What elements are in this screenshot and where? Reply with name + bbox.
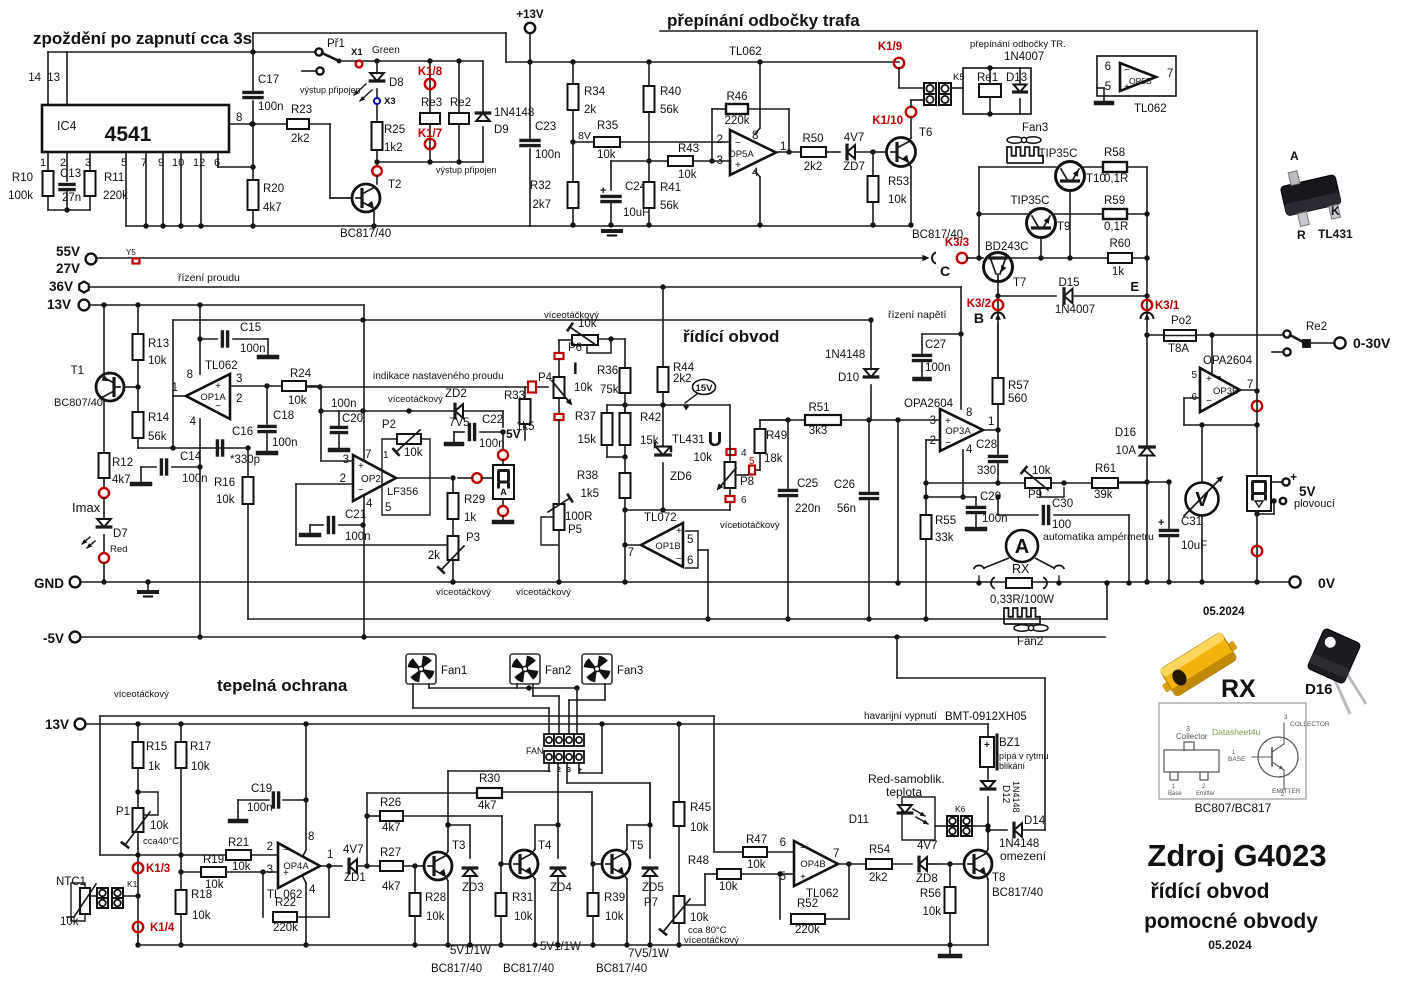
svg-text:BASE: BASE xyxy=(1228,756,1246,763)
resistor R35 xyxy=(573,141,594,143)
svg-text:4: 4 xyxy=(190,416,197,428)
svg-text:6: 6 xyxy=(780,837,786,849)
resistor R34 xyxy=(572,62,574,84)
svg-text:2: 2 xyxy=(717,134,723,146)
heatsink Fan3 xyxy=(1007,147,1043,163)
svg-text:X3: X3 xyxy=(384,96,396,107)
fan Fan3 xyxy=(582,654,612,684)
svg-text:R51: R51 xyxy=(808,402,829,414)
svg-text:10k: 10k xyxy=(1032,465,1051,477)
pin6 stub xyxy=(217,152,219,167)
svg-text:R23: R23 xyxy=(291,104,312,116)
OP2 pin3 wire xyxy=(321,460,353,462)
wire to R21 xyxy=(100,854,226,856)
diode D14 1N4148 xyxy=(988,829,1007,831)
svg-text:5V1/1W: 5V1/1W xyxy=(450,945,491,957)
svg-text:D11: D11 xyxy=(849,814,869,826)
wire y405 xyxy=(607,404,730,406)
svg-text:OP1B: OP1B xyxy=(655,541,680,552)
wire pin3 xyxy=(263,871,278,873)
svg-text:indikace nastaveného proudu: indikace nastaveného proudu xyxy=(373,371,504,382)
wire 13V rail xyxy=(89,304,364,306)
svg-text:7: 7 xyxy=(628,547,634,559)
svg-text:Zdroj G4023: Zdroj G4023 xyxy=(1147,838,1326,873)
svg-text:C22: C22 xyxy=(482,414,503,426)
terminal 0V xyxy=(75,581,1290,583)
svg-text:10A: 10A xyxy=(1116,445,1137,457)
OP4A output xyxy=(320,865,342,867)
svg-text:T8A: T8A xyxy=(1168,343,1189,355)
svg-text:řídící obvod: řídící obvod xyxy=(1150,880,1269,903)
svg-text:4k7: 4k7 xyxy=(263,202,282,214)
svg-text:výstup připojen: výstup připojen xyxy=(300,85,361,95)
svg-text:blikání: blikání xyxy=(999,761,1026,771)
OP1B loop box xyxy=(685,531,698,568)
svg-text:K6: K6 xyxy=(955,804,966,814)
zener ZD3 xyxy=(463,868,477,876)
svg-text:C19: C19 xyxy=(251,783,272,795)
T6 collector to K1/10 xyxy=(909,138,911,141)
resistor R18 10k xyxy=(176,890,187,914)
svg-text:P1: P1 xyxy=(116,806,130,818)
svg-text:teplota: teplota xyxy=(886,785,922,799)
svg-text:ZD1: ZD1 xyxy=(344,872,366,884)
svg-text:4k7: 4k7 xyxy=(478,800,497,812)
wire x367 up xyxy=(366,793,368,866)
svg-text:R37: R37 xyxy=(575,411,596,423)
svg-text:OP1A: OP1A xyxy=(200,392,226,403)
svg-text:T3: T3 xyxy=(452,840,465,852)
svg-text:6: 6 xyxy=(687,555,693,567)
pin7 stub xyxy=(145,152,147,226)
svg-text:RX: RX xyxy=(1012,562,1030,576)
svg-text:1N4007: 1N4007 xyxy=(1055,304,1095,316)
OP4A power stubs xyxy=(303,850,306,856)
switch Pr1 xyxy=(315,48,322,55)
svg-text:OPA2604: OPA2604 xyxy=(904,398,954,410)
svg-text:ZD4: ZD4 xyxy=(550,882,572,894)
R37 chain xyxy=(606,405,608,413)
svg-text:3: 3 xyxy=(236,373,242,385)
svg-text:ZD6: ZD6 xyxy=(670,471,692,483)
svg-text:4V7: 4V7 xyxy=(343,844,363,856)
svg-text:100n: 100n xyxy=(258,101,284,113)
P9 wiper loop xyxy=(1040,487,1064,497)
svg-text:220n: 220n xyxy=(795,503,821,515)
svg-text:D15: D15 xyxy=(1058,277,1079,289)
svg-text:8: 8 xyxy=(308,831,314,843)
wire feedback y448 xyxy=(138,447,248,449)
svg-text:+: + xyxy=(1206,374,1212,385)
R52 feedback xyxy=(779,874,781,919)
OP2 output xyxy=(396,477,449,479)
svg-text:RX: RX xyxy=(1221,675,1256,703)
fan wires xyxy=(412,684,414,708)
pin1 stub xyxy=(47,152,49,171)
diode D10 1N4148 xyxy=(870,320,872,369)
relay Re2 xyxy=(456,58,461,63)
svg-text:4: 4 xyxy=(741,448,747,459)
svg-text:8: 8 xyxy=(966,407,972,419)
svg-text:R43: R43 xyxy=(678,143,699,155)
wire y713 to R47 xyxy=(713,716,715,852)
svg-text:100n: 100n xyxy=(345,531,371,543)
svg-text:R49: R49 xyxy=(766,430,787,442)
svg-text:P4: P4 xyxy=(538,372,553,384)
svg-text:Collector: Collector xyxy=(1176,732,1208,741)
resistor R16 xyxy=(247,448,249,477)
svg-text:TL062: TL062 xyxy=(729,46,762,58)
R22 feedback xyxy=(262,872,264,917)
zener ZD1 4V7 xyxy=(349,859,357,873)
svg-text:OP4A: OP4A xyxy=(283,861,309,872)
svg-text:−: − xyxy=(358,485,364,496)
svg-text:R22: R22 xyxy=(275,897,296,909)
svg-text:ZD3: ZD3 xyxy=(462,882,484,894)
svg-text:vícetiotáčkový: vícetiotáčkový xyxy=(720,520,780,531)
resistor R43 xyxy=(668,156,693,166)
svg-text:K1/7: K1/7 xyxy=(418,128,442,140)
svg-text:5: 5 xyxy=(121,157,127,169)
svg-text:R25: R25 xyxy=(384,124,405,136)
T8 emitter xyxy=(986,875,988,879)
svg-text:R16: R16 xyxy=(214,477,235,489)
svg-text:Green: Green xyxy=(372,45,400,56)
transistor T5 xyxy=(593,863,602,865)
fan Fan1 xyxy=(406,654,436,684)
svg-text:X1: X1 xyxy=(351,47,363,58)
display 5V plovouci xyxy=(1247,476,1271,511)
T3 zener link xyxy=(448,824,470,826)
svg-text:5: 5 xyxy=(385,502,391,514)
K1/3 marker xyxy=(137,855,139,945)
svg-text:cca40°C: cca40°C xyxy=(143,836,179,847)
svg-text:řídící obvod: řídící obvod xyxy=(683,327,779,346)
svg-text:1k: 1k xyxy=(464,512,476,524)
K3/3 marker xyxy=(957,253,967,263)
svg-text:1k5: 1k5 xyxy=(580,488,599,500)
svg-text:R47: R47 xyxy=(746,834,767,846)
svg-text:K1/9: K1/9 xyxy=(878,41,902,53)
title underline wire xyxy=(660,30,1257,32)
svg-text:05.2024: 05.2024 xyxy=(1208,938,1252,952)
transistor T7 BD243C xyxy=(984,253,1013,282)
red sq 4 xyxy=(727,449,736,455)
svg-text:TL431: TL431 xyxy=(672,434,705,446)
svg-text:víceotáčkový: víceotáčkový xyxy=(516,587,571,598)
pin+ wire xyxy=(578,763,580,773)
wire T10 row xyxy=(979,166,1056,168)
svg-text:3: 3 xyxy=(267,864,273,876)
svg-text:K3/2: K3/2 xyxy=(967,298,991,310)
svg-text:10k: 10k xyxy=(150,820,169,832)
svg-text:Re2: Re2 xyxy=(1306,321,1327,333)
node 8V xyxy=(572,110,574,182)
wire pin14 drop xyxy=(47,52,49,105)
pot P9 10k xyxy=(1025,478,1051,488)
pin3 stub xyxy=(89,152,91,171)
svg-text:+: + xyxy=(735,160,741,171)
capacitor C30 xyxy=(997,497,999,515)
resistor R30 4k7 xyxy=(477,788,502,798)
vertical right bus x1257 xyxy=(1256,31,1258,391)
fan blades Fan2 xyxy=(1014,625,1030,631)
resistor R47 10k xyxy=(743,847,767,857)
svg-text:D10: D10 xyxy=(838,372,859,384)
svg-text:K1: K1 xyxy=(127,879,138,889)
svg-text:R10: R10 xyxy=(12,172,33,184)
svg-text:TL072: TL072 xyxy=(644,512,677,524)
svg-text:pomocné obvody: pomocné obvody xyxy=(1144,910,1318,933)
T3 cluster xyxy=(412,863,417,868)
svg-text:P3: P3 xyxy=(466,532,480,544)
Imax LED D7 xyxy=(103,478,105,488)
svg-text:P5: P5 xyxy=(568,524,582,536)
svg-text:TL431: TL431 xyxy=(1318,227,1353,241)
fuse Po2 T8A xyxy=(1144,332,1149,337)
wire pin13 drop xyxy=(66,52,68,105)
svg-text:7: 7 xyxy=(141,157,147,169)
transistor T10 TIP35C xyxy=(1056,162,1085,191)
svg-text:R59: R59 xyxy=(1104,195,1125,207)
capacitor C16 330p xyxy=(216,441,219,455)
svg-text:Fan1: Fan1 xyxy=(441,665,467,677)
resistor R31 10k xyxy=(500,864,502,893)
svg-text:T7: T7 xyxy=(1013,277,1026,289)
svg-text:10k: 10k xyxy=(888,194,907,206)
terminal 0-30V xyxy=(1334,337,1345,348)
svg-text:R53: R53 xyxy=(888,176,909,188)
op-amp OP3B xyxy=(1200,368,1240,412)
svg-text:R32: R32 xyxy=(530,180,551,192)
capacitor C31 10uF xyxy=(1168,482,1170,528)
resistor R19 10k xyxy=(181,871,201,873)
wire y793 R30 xyxy=(367,792,477,794)
wire 55V input xyxy=(95,257,925,259)
switch Re2 xyxy=(1283,330,1290,337)
svg-text:330: 330 xyxy=(977,465,996,477)
resistor R59 xyxy=(1103,209,1127,219)
svg-text:P6: P6 xyxy=(568,342,582,354)
T3 collector xyxy=(446,851,448,855)
OP2 pin2 wire xyxy=(296,483,353,485)
svg-text:Re1: Re1 xyxy=(977,72,998,84)
svg-text:plovoucí: plovoucí xyxy=(1294,498,1335,510)
resistor R23 xyxy=(287,119,309,129)
diode D9 1N4148 xyxy=(482,61,484,112)
svg-text:P2: P2 xyxy=(382,419,396,431)
wire y483 xyxy=(926,482,1025,484)
buzzer BZ1 xyxy=(980,737,994,767)
svg-text:IC4: IC4 xyxy=(57,119,77,133)
svg-text:+: + xyxy=(676,526,682,537)
svg-text:56n: 56n xyxy=(837,503,856,515)
svg-text:Base: Base xyxy=(1168,791,1182,797)
svg-text:E: E xyxy=(1130,279,1139,294)
svg-text:10k: 10k xyxy=(693,452,712,464)
svg-text:R55: R55 xyxy=(935,515,956,527)
svg-text:3: 3 xyxy=(85,157,91,169)
svg-text:P8: P8 xyxy=(740,476,754,488)
svg-text:3: 3 xyxy=(343,454,349,466)
svg-text:4: 4 xyxy=(752,167,759,179)
transistor T9 TIP35C xyxy=(1027,209,1056,238)
pin8 stub xyxy=(755,128,760,134)
svg-text:C23: C23 xyxy=(535,121,556,133)
svg-text:100R: 100R xyxy=(565,511,593,523)
diode D16 10A xyxy=(1140,447,1154,456)
svg-text:+13V: +13V xyxy=(516,9,544,21)
bottom bus xyxy=(138,944,988,946)
resistor R55 33k xyxy=(923,494,928,499)
svg-text:TIP35C: TIP35C xyxy=(1039,148,1078,160)
svg-text:R60: R60 xyxy=(1109,238,1130,250)
svg-text:0V: 0V xyxy=(1318,575,1336,591)
resistor R10 xyxy=(43,171,54,196)
svg-text:B: B xyxy=(974,310,984,326)
vertical 13V distribution x364 xyxy=(363,305,365,637)
T5 zener link xyxy=(627,824,650,826)
svg-text:7: 7 xyxy=(833,848,839,860)
svg-text:10k: 10k xyxy=(578,318,597,330)
svg-text:100n: 100n xyxy=(182,473,208,485)
resistor R60 xyxy=(1108,253,1132,263)
svg-text:R45: R45 xyxy=(690,802,711,814)
svg-text:C14: C14 xyxy=(180,451,202,463)
svg-text:27n: 27n xyxy=(62,192,81,204)
relay Re3 xyxy=(427,58,432,63)
svg-text:100n: 100n xyxy=(272,437,298,449)
svg-text:6: 6 xyxy=(1105,61,1111,73)
svg-text:Po2: Po2 xyxy=(1171,315,1191,327)
svg-text:Emitter: Emitter xyxy=(1196,791,1215,797)
svg-text:7: 7 xyxy=(1167,68,1173,80)
svg-text:4: 4 xyxy=(366,498,373,510)
resistor R27 4k7 xyxy=(380,861,403,871)
resistor R40 xyxy=(648,62,650,86)
svg-text:10k: 10k xyxy=(404,447,423,459)
svg-text:R: R xyxy=(1297,228,1306,242)
svg-text:56k: 56k xyxy=(660,104,679,116)
pot P5 100R xyxy=(554,504,565,530)
svg-text:R29: R29 xyxy=(464,494,485,506)
svg-text:−: − xyxy=(676,554,682,565)
svg-text:Fan2: Fan2 xyxy=(545,665,571,677)
heatsink RX xyxy=(1004,608,1040,624)
left bus x979 xyxy=(978,167,980,258)
K1/10 marker xyxy=(906,107,916,117)
svg-text:10k: 10k xyxy=(747,859,766,871)
svg-text:2k7: 2k7 xyxy=(532,199,551,211)
svg-text:C25: C25 xyxy=(797,478,818,490)
resistor R28 10k xyxy=(414,866,416,893)
T5 emitter xyxy=(624,875,627,879)
svg-text:R21: R21 xyxy=(228,837,249,849)
svg-text:tepelná ochrana: tepelná ochrana xyxy=(217,676,348,695)
svg-text:100n: 100n xyxy=(247,802,273,814)
K1/9 marker xyxy=(894,58,904,68)
capacitor C27 xyxy=(922,333,961,335)
svg-text:100k: 100k xyxy=(8,190,33,202)
svg-text:39k: 39k xyxy=(1094,489,1113,501)
svg-text:R12: R12 xyxy=(112,457,133,469)
transistor T3 xyxy=(415,865,424,867)
svg-text:−: − xyxy=(283,845,289,856)
svg-text:řízení proudu: řízení proudu xyxy=(178,272,240,284)
zener ZD4 xyxy=(551,868,565,876)
svg-text:+: + xyxy=(1290,470,1297,484)
svg-text:+: + xyxy=(800,872,806,883)
svg-text:Y5: Y5 xyxy=(126,248,136,257)
svg-text:12: 12 xyxy=(193,157,205,169)
svg-text:Re2: Re2 xyxy=(450,97,471,109)
svg-text:přepínání odbočky TR.: přepínání odbočky TR. xyxy=(970,39,1066,50)
svg-text:OP3A: OP3A xyxy=(945,426,971,437)
svg-text:BC817/40: BC817/40 xyxy=(503,963,554,975)
svg-text:R50: R50 xyxy=(802,133,823,145)
svg-text:3: 3 xyxy=(930,415,936,427)
resistor R50 xyxy=(801,147,826,157)
svg-text:10: 10 xyxy=(172,157,184,169)
wire OP3B+ feed xyxy=(1211,335,1213,377)
svg-text:I: I xyxy=(573,359,578,378)
wire y320 long xyxy=(173,319,871,321)
wire pin3 node xyxy=(611,160,668,162)
svg-text:2k2: 2k2 xyxy=(291,133,310,145)
pin5 stub xyxy=(125,152,127,226)
connector K5 xyxy=(924,83,936,94)
red ring xyxy=(1252,546,1262,556)
wire T9 row xyxy=(979,213,1027,215)
T8 collector xyxy=(986,849,988,853)
svg-text:220k: 220k xyxy=(103,190,128,202)
svg-text:R14: R14 xyxy=(148,412,170,424)
svg-text:T6: T6 xyxy=(919,127,932,139)
svg-text:R48: R48 xyxy=(688,855,709,867)
pot P7 10k xyxy=(674,896,685,923)
resistor R32 xyxy=(568,182,579,208)
pin10 stub xyxy=(180,152,182,226)
svg-text:10k: 10k xyxy=(605,911,624,923)
svg-text:100n: 100n xyxy=(479,438,505,450)
resistor R15 1k xyxy=(137,724,139,742)
svg-text:C18: C18 xyxy=(273,410,294,422)
svg-text:C15: C15 xyxy=(240,322,261,334)
T6 emitter xyxy=(909,163,911,167)
svg-text:36V: 36V xyxy=(49,279,73,294)
svg-text:K1/8: K1/8 xyxy=(418,66,443,78)
svg-text:C31: C31 xyxy=(1181,516,1202,528)
svg-text:OP2: OP2 xyxy=(361,474,381,485)
pin2 stub xyxy=(66,152,68,181)
svg-text:T9: T9 xyxy=(1057,221,1070,233)
svg-text:10k: 10k xyxy=(60,916,79,928)
svg-text:R35: R35 xyxy=(597,120,618,132)
OP3B feedback xyxy=(1184,397,1200,399)
svg-text:100n: 100n xyxy=(925,362,951,374)
svg-text:1k: 1k xyxy=(148,761,160,773)
wire right loop xyxy=(1044,678,1046,830)
wire to C22 xyxy=(502,411,504,427)
resistor R46 feedback xyxy=(711,109,713,161)
svg-text:C13: C13 xyxy=(60,168,81,180)
svg-text:2k2: 2k2 xyxy=(869,872,888,884)
svg-text:5V1/1W: 5V1/1W xyxy=(540,941,581,953)
svg-text:R38: R38 xyxy=(577,470,598,482)
svg-text:7: 7 xyxy=(365,449,371,461)
resistor R29 xyxy=(452,478,454,493)
svg-text:R24: R24 xyxy=(290,368,312,380)
